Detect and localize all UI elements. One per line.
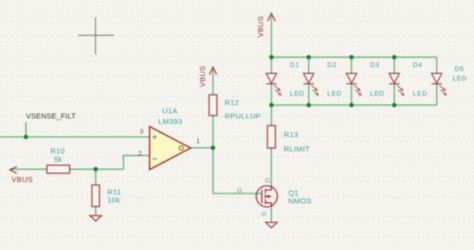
svg-text:R12: R12: [225, 98, 240, 107]
svg-text:LM393: LM393: [158, 117, 182, 126]
svg-text:NMOS: NMOS: [288, 197, 312, 206]
svg-text:1: 1: [196, 138, 200, 145]
svg-text:RLIMIT: RLIMIT: [284, 144, 310, 153]
svg-text:VSENSE_FILT: VSENSE_FILT: [26, 112, 76, 121]
svg-text:LED: LED: [290, 91, 305, 98]
svg-text:VBUS: VBUS: [198, 66, 207, 87]
svg-text:U1A: U1A: [162, 106, 177, 115]
svg-text:LED: LED: [453, 76, 468, 83]
svg-text:D1: D1: [290, 62, 300, 69]
svg-text:10k: 10k: [107, 196, 120, 205]
svg-text:5k: 5k: [54, 155, 62, 164]
svg-text:VBUS: VBUS: [12, 175, 33, 184]
svg-text:D2: D2: [327, 62, 337, 69]
svg-text:3: 3: [140, 128, 144, 135]
svg-text:D3: D3: [370, 62, 380, 69]
svg-text:LED: LED: [370, 91, 385, 98]
svg-text:RPULLUP: RPULLUP: [225, 112, 261, 121]
svg-text:VBUS: VBUS: [256, 16, 265, 37]
svg-text:D4: D4: [413, 62, 423, 69]
svg-text:2: 2: [138, 151, 142, 158]
svg-text:R13: R13: [284, 130, 299, 139]
svg-text:LED: LED: [327, 91, 342, 98]
svg-text:LED: LED: [413, 91, 428, 98]
svg-text:D5: D5: [455, 66, 465, 73]
svg-text:G: G: [237, 188, 242, 195]
svg-text:D: D: [264, 178, 271, 183]
svg-text:S: S: [261, 211, 268, 216]
